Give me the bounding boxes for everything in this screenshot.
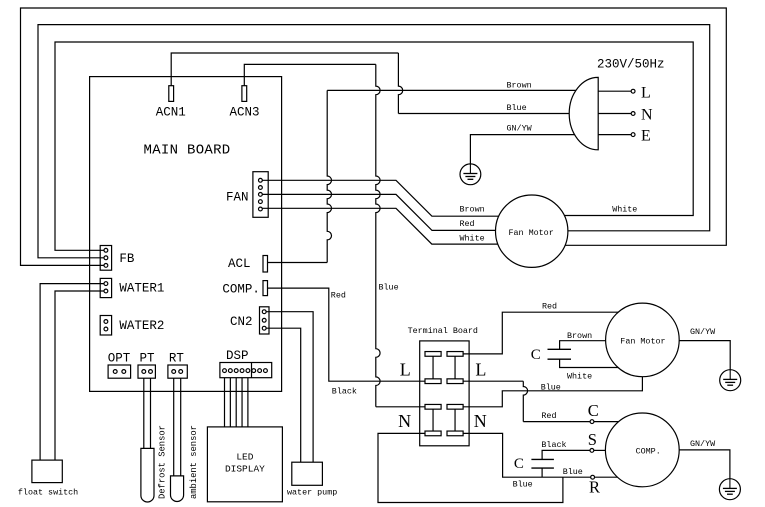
svg-text:C: C xyxy=(514,456,524,472)
svg-text:WATER2: WATER2 xyxy=(119,319,164,333)
svg-text:Brown: Brown xyxy=(460,204,485,214)
svg-text:ACL: ACL xyxy=(228,257,251,271)
svg-text:White: White xyxy=(567,372,592,382)
svg-text:Black: Black xyxy=(541,440,566,450)
svg-text:WATER1: WATER1 xyxy=(119,282,164,296)
svg-text:Blue: Blue xyxy=(507,103,527,113)
svg-text:Red: Red xyxy=(460,219,475,229)
svg-text:DISPLAY: DISPLAY xyxy=(225,463,265,474)
svg-text:CN2: CN2 xyxy=(230,315,253,329)
svg-text:N: N xyxy=(474,411,487,431)
svg-text:MAIN BOARD: MAIN BOARD xyxy=(144,143,231,159)
svg-text:Fan Motor: Fan Motor xyxy=(620,337,665,347)
svg-text:Fan Motor: Fan Motor xyxy=(509,228,554,238)
svg-text:L: L xyxy=(400,359,411,379)
svg-text:GN/YW: GN/YW xyxy=(507,124,533,134)
svg-text:Terminal Board: Terminal Board xyxy=(408,326,478,336)
svg-text:Red: Red xyxy=(542,302,557,312)
svg-text:Blue: Blue xyxy=(541,383,561,393)
svg-text:Defrost Sensor: Defrost Sensor xyxy=(158,425,168,499)
svg-text:Blue: Blue xyxy=(563,467,583,477)
svg-text:S: S xyxy=(588,430,597,449)
svg-text:COMP.: COMP. xyxy=(222,282,260,296)
svg-text:E: E xyxy=(641,128,651,145)
svg-text:LED: LED xyxy=(236,452,253,463)
svg-text:R: R xyxy=(589,478,600,497)
svg-text:GN/YW: GN/YW xyxy=(690,439,716,449)
svg-text:ACN1: ACN1 xyxy=(156,106,186,120)
svg-text:GN/YW: GN/YW xyxy=(690,327,716,337)
svg-text:N: N xyxy=(641,107,653,124)
svg-text:Blue: Blue xyxy=(513,480,533,490)
svg-text:L: L xyxy=(641,84,651,101)
svg-text:Red: Red xyxy=(331,291,346,301)
svg-text:White: White xyxy=(612,204,637,214)
svg-text:Red: Red xyxy=(541,411,556,421)
svg-text:Brown: Brown xyxy=(507,81,532,91)
svg-text:FAN: FAN xyxy=(226,191,249,205)
svg-text:OPT: OPT xyxy=(108,352,131,366)
svg-text:DSP: DSP xyxy=(226,349,249,363)
svg-text:ambient sensor: ambient sensor xyxy=(189,425,199,499)
svg-text:White: White xyxy=(460,233,485,243)
svg-text:L: L xyxy=(475,359,486,379)
svg-text:COMP.: COMP. xyxy=(636,447,661,457)
svg-text:C: C xyxy=(588,401,599,420)
svg-text:230V/50Hz: 230V/50Hz xyxy=(597,58,665,72)
svg-text:Black: Black xyxy=(332,386,357,396)
svg-text:PT: PT xyxy=(140,352,156,366)
svg-text:N: N xyxy=(398,411,411,431)
svg-text:float switch: float switch xyxy=(18,487,78,497)
svg-text:RT: RT xyxy=(169,352,185,366)
svg-text:ACN3: ACN3 xyxy=(230,106,260,120)
svg-text:C: C xyxy=(531,347,541,363)
svg-text:Blue: Blue xyxy=(379,283,399,293)
svg-text:Brown: Brown xyxy=(567,331,592,341)
svg-text:water pump: water pump xyxy=(287,487,337,497)
svg-text:FB: FB xyxy=(119,252,135,266)
